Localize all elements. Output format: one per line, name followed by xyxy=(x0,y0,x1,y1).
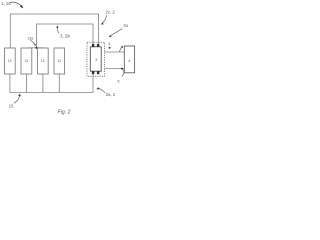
leader arrow for 1, 10 xyxy=(10,2,21,6)
sensor board 3a (dashed box) xyxy=(87,42,105,76)
dot end of hook on wire 4 xyxy=(121,46,123,48)
svg-text:13: 13 xyxy=(57,59,61,63)
terminal square top-right xyxy=(97,44,99,47)
battery cell 13 (second) xyxy=(21,48,32,74)
svg-text:4: 4 xyxy=(128,59,130,63)
leader arrow for 13a xyxy=(30,40,35,44)
leader arrow for 3a xyxy=(110,29,122,36)
wire 2c (top tap wire) xyxy=(10,14,98,48)
junction dot on connector xyxy=(35,47,37,49)
svg-text:3: 3 xyxy=(95,58,97,62)
svg-text:2c, 2: 2c, 2 xyxy=(106,10,116,15)
arrowhead 3, 2b xyxy=(56,25,58,28)
junction dot on wire 5 xyxy=(121,68,123,70)
battery cell 13 (third) xyxy=(38,48,49,74)
svg-text:13: 13 xyxy=(24,59,28,63)
leader arrow for 3, 2b xyxy=(57,27,59,34)
leader arrow for 15 xyxy=(14,95,20,103)
svg-text:13: 13 xyxy=(8,59,12,63)
svg-text:Fig. 2: Fig. 2 xyxy=(58,110,71,116)
leader arrow for 5 xyxy=(122,69,124,76)
terminal square bottom-right xyxy=(97,71,99,74)
svg-text:15: 15 xyxy=(9,103,14,108)
leader hook on wire 4 xyxy=(120,47,122,52)
control unit 4 (right box) xyxy=(124,46,134,73)
svg-text:3, 2b: 3, 2b xyxy=(60,33,71,38)
arrowhead 15 xyxy=(18,94,21,97)
battery cell 13 (fourth) xyxy=(54,48,65,74)
cell connector between cell 2 and cell 3 xyxy=(29,47,44,49)
svg-text:13a: 13a xyxy=(27,36,33,40)
arrowhead 3a xyxy=(108,35,111,37)
wire cell2 bottom stub xyxy=(25,74,27,93)
arrowhead 2a, 2 xyxy=(96,87,99,89)
wire 4 (upper link to control unit) xyxy=(105,51,125,53)
arrowhead 1, 10 xyxy=(20,5,23,8)
svg-text:1, 10: 1, 10 xyxy=(1,1,11,6)
arrowhead 2c, 2 xyxy=(100,23,103,25)
svg-text:2a, 2: 2a, 2 xyxy=(106,92,116,97)
wire cell4 bottom stub xyxy=(58,74,60,93)
battery cell 13 (first) xyxy=(5,48,16,74)
svg-text:4: 4 xyxy=(108,42,110,46)
terminal square bottom-left xyxy=(92,71,94,74)
wire 2a (bottom bus) xyxy=(10,74,93,93)
leader arrow for 2c, 2 xyxy=(102,15,107,23)
wire cell1 bottom stub xyxy=(9,74,11,93)
svg-text:13: 13 xyxy=(41,59,45,63)
terminal square top-left xyxy=(92,44,94,47)
wire cell3 bottom stub xyxy=(42,74,44,93)
arrowhead 13a xyxy=(34,44,36,46)
arrowhead dot under label 4 xyxy=(109,47,111,49)
wire 5 (lower link to control unit) xyxy=(105,68,125,70)
measuring unit 3 xyxy=(90,47,101,71)
wire 2b (middle tap wire) xyxy=(37,24,94,47)
leader arrow for 2a, 2 xyxy=(98,88,106,92)
svg-text:3a: 3a xyxy=(123,23,128,28)
svg-text:5: 5 xyxy=(117,80,119,84)
